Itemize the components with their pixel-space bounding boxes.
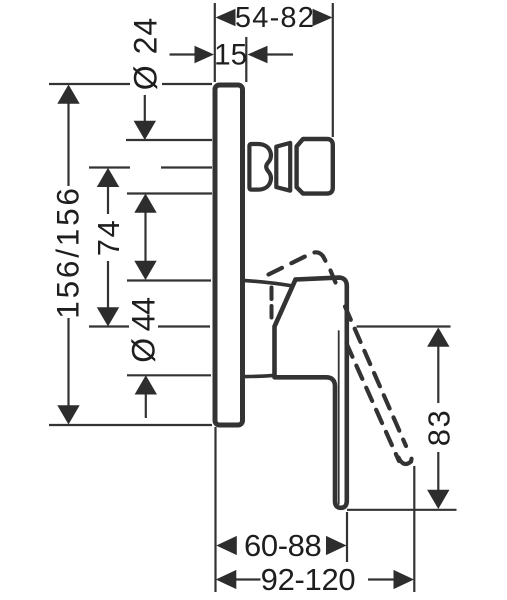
svg-text:15: 15 <box>214 39 247 72</box>
svg-text:54-82: 54-82 <box>235 2 315 34</box>
svg-text:Ø 24: Ø 24 <box>127 17 163 90</box>
svg-text:74: 74 <box>91 219 126 256</box>
svg-text:60-88: 60-88 <box>244 528 321 563</box>
svg-text:92-120: 92-120 <box>261 562 356 597</box>
svg-text:83: 83 <box>422 409 457 446</box>
svg-text:156/156: 156/156 <box>50 185 86 318</box>
svg-text:Ø 44: Ø 44 <box>126 298 162 363</box>
